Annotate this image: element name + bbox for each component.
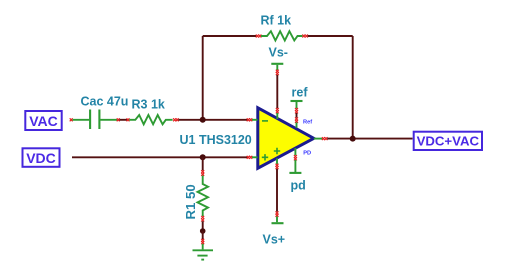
Vs+ terminal [263,211,286,246]
node C (junction R1 / ground) [200,228,206,234]
wire feedback left leg [202,36,204,120]
wire R1 to ground node [202,221,204,231]
wire Vs- to op-amp [276,75,278,109]
ref terminal [291,86,309,114]
wire feedback top left [203,35,257,37]
svg-text:R3 1k: R3 1k [132,98,165,112]
pd terminal [289,160,305,193]
wire R1 top stub [202,157,204,170]
svg-text:Vs+: Vs+ [263,233,286,247]
node VDC label [23,148,60,167]
wire output to node D [327,138,412,140]
svg-text:VDC: VDC [26,150,56,166]
ground [193,239,214,260]
op-amp U1 THS3120 [180,108,314,168]
Vs- terminal [269,46,288,76]
wire feedback top right [308,35,353,37]
node D (output junction) [350,136,356,142]
op-amp supply plus mark [274,148,280,154]
svg-text:Rf 1k: Rf 1k [261,14,292,28]
op-amp Vs- pin [276,108,279,119]
op-amp output pin [314,137,328,140]
op-amp pd pin [294,148,311,160]
wire ref to op-amp [296,113,298,118]
svg-text:PD: PD [303,151,311,157]
node B (junction VDC / R1) [200,154,206,160]
svg-text:VDC+VAC: VDC+VAC [417,134,480,149]
resistor R3 1k [127,98,179,125]
op-amp minus input pin [247,118,268,121]
svg-text:Cac 47u: Cac 47u [81,95,129,109]
svg-text:R1 50: R1 50 [183,184,198,219]
wire R3 to node A [178,119,247,121]
svg-text:ref: ref [292,86,309,100]
svg-text:VAC: VAC [29,113,58,129]
wire feedback right leg [352,36,354,139]
resistor R1 50 [183,170,208,221]
wire VDC line [72,156,248,158]
svg-text:Ref: Ref [303,120,312,126]
svg-text:U1 THS3120: U1 THS3120 [180,133,252,147]
svg-text:pd: pd [291,179,306,193]
svg-text:Vs-: Vs- [269,46,288,60]
wire cap to R3 [119,119,127,121]
capacitor Cac 47u [70,95,129,130]
node VDC+VAC label [414,132,482,150]
node VAC label [25,111,61,130]
op-amp plus input pin [247,154,269,160]
wire Vs+ [276,169,278,212]
wire node C to ground pin [202,231,204,239]
op-amp Vs+ pin [276,158,279,169]
node A (junction R3 / feedback / opamp -) [200,117,206,123]
op-amp ref pin [295,117,312,127]
resistor Rf 1k [256,14,308,41]
